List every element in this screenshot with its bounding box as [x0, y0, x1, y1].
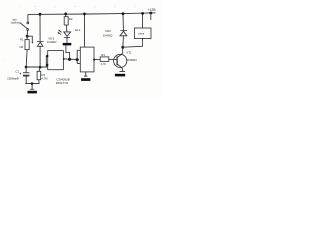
wire R1 to node B: [25, 50, 28, 67]
svg-text:VD2: VD2: [105, 29, 111, 33]
svg-text:R2: R2: [69, 17, 73, 21]
node rail end: [149, 12, 152, 15]
wire flyback bottom: [123, 45, 143, 48]
LED HL1: [66, 25, 68, 32]
wire gate2 out: [93, 59, 95, 61]
node A: [26, 35, 29, 38]
resistor R4: [100, 57, 109, 62]
node ground junction: [31, 82, 34, 85]
svg-text:1N4002: 1N4002: [47, 40, 57, 44]
svg-text:HL1: HL1: [75, 28, 81, 32]
wire stub below rail end: [150, 13, 152, 20]
capacitor C1: [25, 67, 27, 72]
gate U1.1: [48, 51, 64, 70]
relay K1 coil: [142, 13, 144, 28]
wire rail to IC vcc: [84, 14, 86, 47]
svg-text:4,7К: 4,7К: [101, 62, 107, 66]
resistor R1 (trimmer): [26, 36, 28, 39]
svg-text:+12В: +12В: [148, 8, 157, 12]
svg-text:2N3904: 2N3904: [127, 58, 137, 62]
diode VD1: [39, 14, 41, 41]
wire R4 to base: [109, 58, 117, 60]
wire switch to node A: [26, 30, 28, 35]
svg-text:VT1: VT1: [126, 51, 132, 55]
ground VT1: [119, 71, 125, 73]
node B: [25, 66, 28, 69]
wire top rail +12V: [28, 13, 155, 15]
wire C2 to node D: [66, 45, 70, 59]
diode VD2: [122, 14, 124, 30]
svg-text:1N4002: 1N4002: [103, 34, 113, 38]
switch SA1: [27, 14, 29, 22]
svg-text:R4: R4: [101, 53, 105, 57]
resistor R2: [65, 14, 67, 17]
resistor R3: [39, 67, 40, 71]
ground IC: [85, 72, 87, 76]
svg-text:4,7М: 4,7М: [41, 76, 48, 80]
svg-text:реле: реле: [139, 32, 145, 35]
node D: [68, 58, 71, 61]
wire bottom rail: [25, 83, 39, 85]
gate U1.2: [80, 47, 94, 72]
capacitor C2 thick bar: [63, 43, 72, 46]
ground left: [31, 84, 33, 90]
LED arrows: [59, 30, 61, 32]
svg-text:тумблер: тумблер: [11, 20, 22, 24]
wire gate1 out: [63, 58, 77, 61]
transistor VT1: [114, 54, 127, 67]
wire node B to gate input: [26, 66, 48, 68]
svg-text:R1: R1: [20, 37, 24, 41]
node C: [39, 66, 42, 69]
node collector junction: [121, 46, 124, 49]
svg-text:С1: С1: [15, 69, 19, 73]
svg-text:К561ТЛ1: К561ТЛ1: [56, 81, 69, 85]
svg-text:1000мкФ: 1000мкФ: [7, 76, 20, 80]
